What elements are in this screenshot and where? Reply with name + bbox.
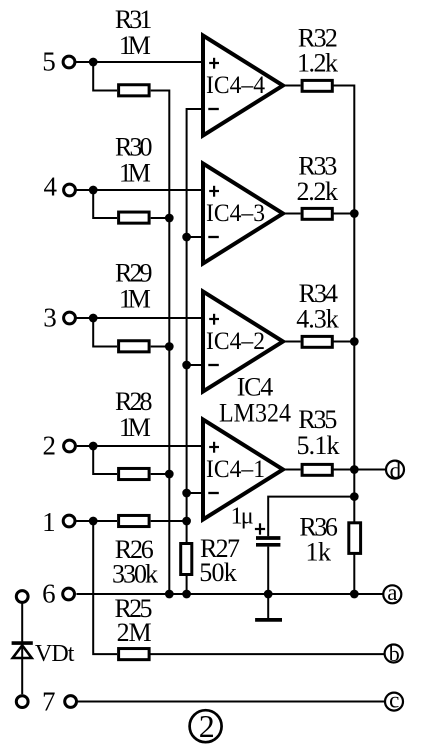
svg-text:1M: 1M <box>119 31 151 60</box>
svg-text:1: 1 <box>42 507 56 537</box>
svg-text:IC4–1: IC4–1 <box>206 454 265 483</box>
svg-text:R28: R28 <box>115 387 153 416</box>
svg-text:1.2k: 1.2k <box>297 49 338 78</box>
svg-text:2: 2 <box>43 430 57 460</box>
svg-text:330k: 330k <box>112 560 158 589</box>
svg-text:IC4–4: IC4–4 <box>206 70 265 99</box>
svg-text:a: a <box>387 580 397 605</box>
svg-text:2: 2 <box>199 708 215 744</box>
svg-text:VDt: VDt <box>35 641 75 667</box>
svg-text:2M: 2M <box>117 618 152 647</box>
svg-text:1μ: 1μ <box>231 504 254 530</box>
svg-text:5: 5 <box>42 46 56 76</box>
svg-text:LM324: LM324 <box>219 399 291 428</box>
svg-text:1M: 1M <box>119 159 151 188</box>
svg-text:1M: 1M <box>119 413 151 442</box>
svg-text:R35: R35 <box>298 405 337 434</box>
svg-text:R30: R30 <box>115 133 153 162</box>
svg-text:IC4–3: IC4–3 <box>206 198 265 227</box>
svg-text:d: d <box>390 458 402 483</box>
svg-text:7: 7 <box>42 687 56 717</box>
svg-text:4: 4 <box>43 172 57 202</box>
svg-text:6: 6 <box>42 578 56 608</box>
svg-text:2.2k: 2.2k <box>297 177 339 206</box>
svg-text:1k: 1k <box>306 538 332 567</box>
svg-text:c: c <box>389 687 399 712</box>
svg-text:4.3k: 4.3k <box>296 305 339 334</box>
svg-text:5.1k: 5.1k <box>297 431 340 460</box>
svg-text:IC4–2: IC4–2 <box>206 326 265 355</box>
svg-text:IC4: IC4 <box>237 372 274 401</box>
svg-text:R31: R31 <box>115 5 153 34</box>
svg-text:50k: 50k <box>199 558 237 587</box>
svg-text:3: 3 <box>43 302 57 332</box>
svg-text:R29: R29 <box>115 259 153 288</box>
svg-text:b: b <box>389 641 400 666</box>
svg-text:1M: 1M <box>119 285 151 314</box>
